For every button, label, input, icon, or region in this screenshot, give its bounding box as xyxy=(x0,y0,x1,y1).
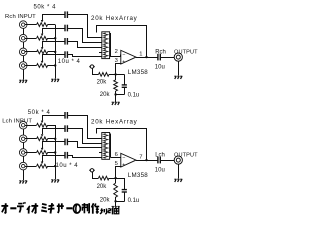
svg-text:20k: 20k xyxy=(100,198,111,204)
wire array out to op-amp inverting input R xyxy=(111,55,121,57)
wire pot VRR3 to ground bus xyxy=(48,51,56,53)
power +V terminal L xyxy=(89,169,94,172)
wire JR4 pin to pot xyxy=(25,65,36,67)
wire bias node to op-amp non-inverting input L xyxy=(116,167,121,179)
wire bias to ground L xyxy=(115,201,117,206)
input jack JR2 xyxy=(19,34,27,42)
capacitor CR2 10u xyxy=(65,25,67,32)
wire wiper to capacitor CR4 xyxy=(42,54,65,56)
wire JL4 pin to pot xyxy=(25,166,36,168)
input jack JL2 xyxy=(19,135,27,143)
potentiometer VRR3 50k body xyxy=(37,50,48,54)
wire CR2 to array pin3 xyxy=(68,29,102,43)
capacitor CL1 10u xyxy=(65,112,67,119)
ground output jack R xyxy=(174,76,182,79)
wire wiper to capacitor CR2 xyxy=(42,28,65,30)
resistor bias 20k horizontal L xyxy=(99,176,110,180)
wire CR4 to array pin6 xyxy=(68,55,102,57)
wire output cap to jack L xyxy=(160,160,174,162)
wire CL2 to array pin3 xyxy=(68,129,102,144)
ground bias R xyxy=(112,102,120,105)
capacitor CL4 10u xyxy=(65,152,67,159)
wire feedback L xyxy=(97,129,147,161)
ground jacks L xyxy=(19,181,27,184)
node bias bottom R xyxy=(114,93,116,95)
svg-text:50k * 4: 50k * 4 xyxy=(34,4,57,10)
potentiometer VRL1 50k body xyxy=(37,123,48,127)
wire op-amp output R xyxy=(136,57,158,59)
svg-text:20k: 20k xyxy=(100,92,111,98)
input jack JL1 xyxy=(19,121,27,129)
wire wiper to capacitor CL1 xyxy=(42,115,65,117)
wire array pin5 stub L xyxy=(99,152,102,154)
node bus-pot2 R xyxy=(54,37,56,39)
resistor bias 20k horizontal R xyxy=(99,73,110,77)
potentiometer VRL4 50k body xyxy=(37,164,48,168)
svg-text:10u: 10u xyxy=(155,64,165,70)
wire jack chain to ground R xyxy=(23,69,25,79)
potentiometer VRR1 50k body xyxy=(37,23,48,27)
wire JR2 pin to pot xyxy=(25,38,36,40)
svg-text:OUTPUT: OUTPUT xyxy=(174,49,198,55)
wire bias node row R xyxy=(109,74,124,76)
node bias top L xyxy=(114,177,116,179)
wire array common bus R xyxy=(110,33,112,57)
op-amp UL LM358 xyxy=(121,153,136,168)
wire pot VRL3 to ground bus xyxy=(48,152,56,154)
ground bias L xyxy=(112,206,120,209)
power +V terminal R xyxy=(89,65,94,68)
potentiometer VRL4 wiper arrow xyxy=(41,155,44,164)
output jack Jout R xyxy=(174,53,182,61)
wire output cap to jack R xyxy=(160,57,174,59)
wire bias to ground R xyxy=(115,95,117,102)
wire bias node to op-amp non-inverting input R xyxy=(116,64,121,75)
svg-text:10u * 4: 10u * 4 xyxy=(56,163,79,169)
capacitor bias 0.1u L xyxy=(124,178,126,190)
node bus-pot4 R xyxy=(54,64,56,66)
wire JL1 pin to pot xyxy=(25,125,36,127)
potentiometer VRR2 wiper arrow xyxy=(41,28,44,36)
svg-text:+: + xyxy=(122,163,125,169)
wire output jack to ground L xyxy=(178,164,180,178)
svg-text:Lch INPUT: Lch INPUT xyxy=(2,118,32,124)
svg-text:20k HexArray: 20k HexArray xyxy=(91,15,138,22)
wire CR1 to array pin2 xyxy=(68,15,102,38)
potentiometer VRR2 50k body xyxy=(37,36,48,40)
potentiometer VRL3 wiper arrow xyxy=(41,142,44,151)
wire CL3 to array pin4 xyxy=(68,142,102,148)
potentiometer VRL2 50k body xyxy=(37,137,48,141)
svg-text:Lch: Lch xyxy=(155,152,165,158)
wire JR3 pin to pot xyxy=(25,51,36,53)
svg-text:LM358: LM358 xyxy=(128,69,148,76)
capacitor bias 0.1u R xyxy=(124,74,126,85)
wire jack chain to ground L xyxy=(23,170,25,180)
svg-text:7: 7 xyxy=(139,155,142,161)
potentiometer VRL2 wiper arrow xyxy=(41,129,44,137)
potentiometer VRL1 wiper arrow xyxy=(41,115,44,123)
svg-text:1: 1 xyxy=(139,52,142,58)
svg-text:LM358: LM358 xyxy=(128,172,148,179)
wire array pin5 stub R xyxy=(99,52,102,54)
input jack JR1 xyxy=(19,21,27,29)
svg-text:10u: 10u xyxy=(155,167,165,173)
wire jack chain L xyxy=(23,129,25,135)
input jack JL3 xyxy=(19,149,27,157)
wire pot VRR2 to ground bus xyxy=(48,38,56,40)
node bus-pot2 L xyxy=(54,138,56,140)
potentiometer VRR4 50k body xyxy=(37,64,48,68)
wire wiper to capacitor CL3 xyxy=(42,141,65,143)
node bus-pot3 L xyxy=(54,151,56,153)
output jack Jout L xyxy=(174,156,182,164)
caption text (audio mixer production, quoted) drawn as vector strokes xyxy=(1,202,118,214)
svg-text:+: + xyxy=(122,60,125,66)
svg-text:−: − xyxy=(122,155,125,161)
resistor bias 20k vertical L xyxy=(115,178,117,183)
wire pot ground bus R xyxy=(55,25,57,79)
potentiometer VRL3 50k body xyxy=(37,151,48,155)
resistor array RAL 20k HexArray xyxy=(102,133,110,160)
capacitor CL2 10u xyxy=(65,125,67,132)
svg-text:0.1u: 0.1u xyxy=(128,198,140,204)
node output junction L xyxy=(145,159,147,161)
wire jack chain R xyxy=(23,28,25,34)
capacitor CL3 10u xyxy=(65,139,67,146)
wire wiper to capacitor CL4 xyxy=(42,155,65,157)
wire pot VRL4 to ground bus xyxy=(48,166,56,168)
wire pot VRL2 to ground bus xyxy=(48,138,56,140)
ground output jack L xyxy=(174,179,182,182)
capacitor Cout R 10u xyxy=(158,54,160,61)
input jack JR3 xyxy=(19,48,27,56)
node bias top R xyxy=(114,73,116,75)
svg-text:2: 2 xyxy=(115,49,118,55)
op-amp UR LM358 xyxy=(121,50,136,65)
wire pot VRL1 to ground bus xyxy=(48,125,56,127)
wire feedback R xyxy=(97,26,147,58)
wire wiper to capacitor CL2 xyxy=(42,128,65,130)
ground jacks R xyxy=(19,80,27,83)
svg-text:−: − xyxy=(122,52,125,58)
wire pot VRR4 to ground bus xyxy=(48,65,56,67)
wire JL2 pin to pot xyxy=(25,138,36,140)
resistor array RAR 20k HexArray xyxy=(102,32,110,59)
wire +V stem L xyxy=(92,172,94,178)
wire JL3 pin to pot xyxy=(25,152,36,154)
node bus-pot3 R xyxy=(54,51,56,53)
wire CR3 to array pin4 xyxy=(68,42,102,48)
potentiometer VRR4 wiper arrow xyxy=(41,55,44,64)
ground pot bus R xyxy=(51,79,59,82)
node output junction R xyxy=(145,56,147,58)
wire pot ground bus L xyxy=(55,125,57,179)
wire array out to op-amp inverting input L xyxy=(111,157,121,159)
potentiometer VRR3 wiper arrow xyxy=(41,41,44,50)
wire JR1 pin to pot xyxy=(25,24,36,26)
wire op-amp output L xyxy=(136,160,158,162)
svg-text:10u * 4: 10u * 4 xyxy=(58,59,81,65)
wire bias bottom link L xyxy=(116,201,125,203)
svg-text:20k: 20k xyxy=(97,184,108,190)
capacitor CR3 10u xyxy=(65,38,67,45)
svg-text:0.1u: 0.1u xyxy=(128,93,140,99)
wire output jack to ground R xyxy=(178,61,180,75)
svg-text:OUTPUT: OUTPUT xyxy=(174,152,198,158)
node bias bottom L xyxy=(114,200,116,202)
capacitor CR1 10u xyxy=(65,11,67,18)
svg-text:Rch INPUT: Rch INPUT xyxy=(5,14,36,20)
wire wiper to capacitor CR3 xyxy=(42,41,65,43)
capacitor CR4 10u xyxy=(65,51,67,58)
wire bias bottom link R xyxy=(116,94,125,96)
potentiometer VRR1 wiper arrow xyxy=(41,15,44,23)
input jack JR4 xyxy=(19,62,27,70)
wire bias node row L xyxy=(109,178,124,180)
svg-text:20k HexArray: 20k HexArray xyxy=(91,119,138,126)
svg-text:20k: 20k xyxy=(97,80,108,86)
wire array common bus L xyxy=(110,134,112,158)
node bus-pot4 L xyxy=(54,165,56,167)
wire CL1 to array pin2 xyxy=(68,116,102,139)
wire CL4 to array pin6 xyxy=(68,156,102,158)
capacitor Cout L 10u xyxy=(158,157,160,164)
wire pot VRR1 to ground bus xyxy=(48,24,56,26)
input jack JL4 xyxy=(19,162,27,170)
resistor bias 20k vertical R xyxy=(115,74,117,80)
svg-text:6: 6 xyxy=(115,152,118,158)
ground pot bus L xyxy=(51,180,59,183)
svg-text:Rch: Rch xyxy=(155,49,166,55)
wire wiper to capacitor CR1 xyxy=(42,14,65,16)
wire +V stem R xyxy=(92,68,94,74)
